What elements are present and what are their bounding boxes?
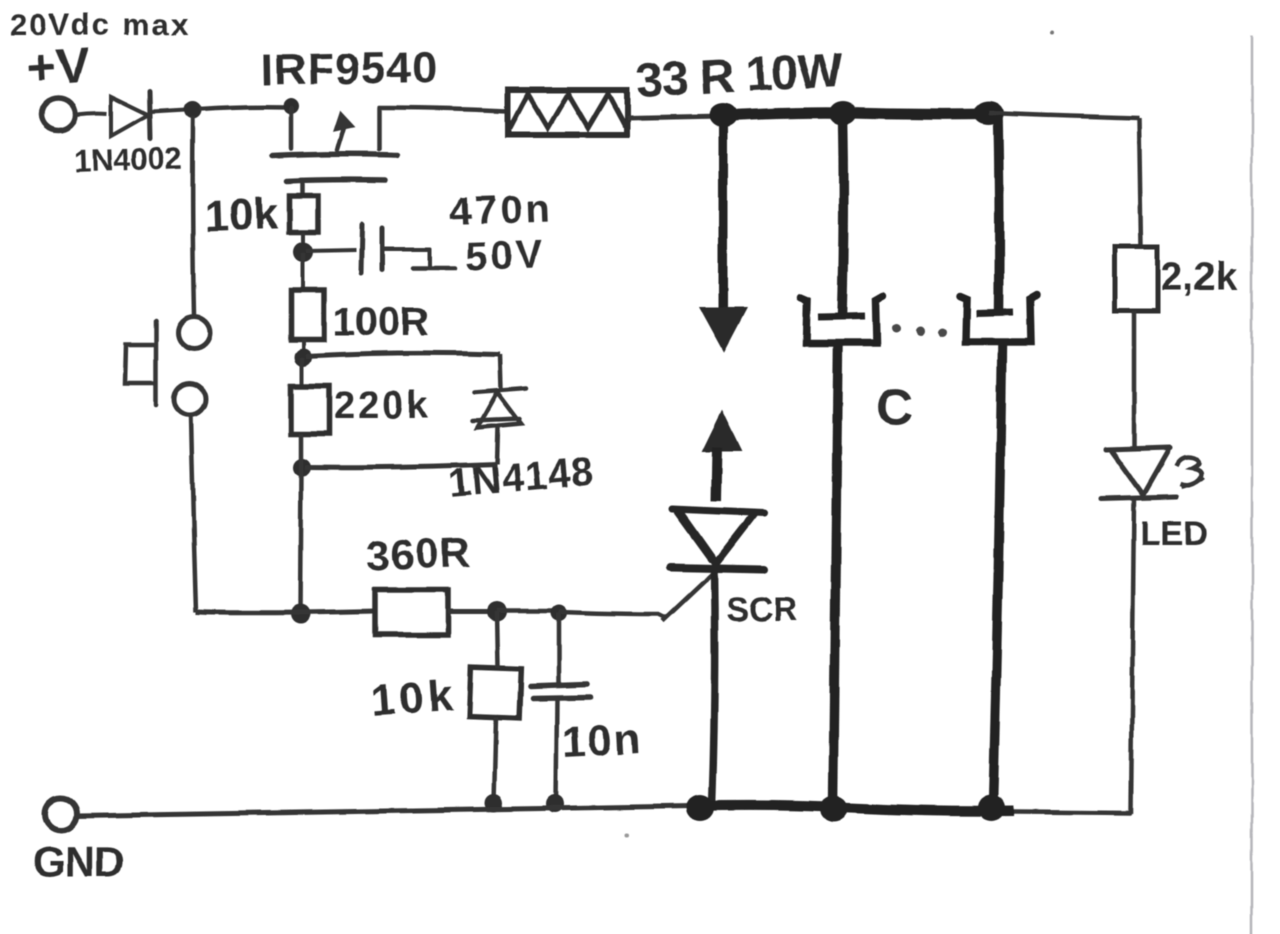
svg-text:+V: +V xyxy=(26,37,92,96)
node top bus junction 1 xyxy=(709,103,737,127)
svg-text:SCR: SCR xyxy=(726,591,798,629)
arrow down (to load plus) xyxy=(719,120,728,312)
capacitor bank cap 1 top plate xyxy=(818,316,865,317)
svg-text:10n: 10n xyxy=(561,715,644,767)
capacitor C 470n 50V xyxy=(361,224,455,273)
svg-text:33 R 10W: 33 R 10W xyxy=(635,44,845,108)
svg-text:100R: 100R xyxy=(333,300,429,344)
wire 10k bottom to ground bus xyxy=(494,717,496,803)
resistor R 360R xyxy=(375,590,448,635)
wire ground bus right thin xyxy=(1014,812,1132,813)
node junction at 10n top xyxy=(551,605,567,621)
capacitor bank cap 1 bottom lead xyxy=(833,343,838,806)
node bus junction (10n) xyxy=(546,795,564,813)
LED light squiggles xyxy=(1176,457,1201,485)
svg-text:10k: 10k xyxy=(204,189,280,241)
thyristor SCR xyxy=(671,509,764,806)
svg-text:470n: 470n xyxy=(449,186,554,234)
wire ground bus left thin xyxy=(77,806,694,816)
node junction at 10k bottom top xyxy=(487,602,507,622)
wire diode to junction xyxy=(151,110,186,112)
svg-text:1N4002: 1N4002 xyxy=(73,140,183,179)
node ground bus junction 1 xyxy=(686,795,714,821)
wire lower junction right to 1N4148 anode xyxy=(305,464,497,467)
wire 100R to junction xyxy=(301,339,305,356)
wire mid junction right to 1N4148 cathode xyxy=(306,353,500,356)
wire pushbutton bottom down xyxy=(191,415,196,612)
wire input to diode xyxy=(76,113,107,114)
svg-text:C: C xyxy=(876,379,914,437)
wire gate junction down to 100R xyxy=(301,253,305,290)
svg-text:GND: GND xyxy=(33,838,123,885)
wire corner down to diode xyxy=(500,354,501,389)
node gate-line left junction xyxy=(290,604,310,624)
wire SCR gate diagonal xyxy=(662,573,713,621)
capacitor C 10n xyxy=(530,684,590,698)
svg-text:20Vdc max: 20Vdc max xyxy=(10,7,190,42)
wire top bus thin right xyxy=(989,113,1139,118)
terminal GND circle xyxy=(45,798,77,830)
wire junction to SCR gate hook xyxy=(559,612,666,618)
wire mid junction down to 220k xyxy=(300,357,304,386)
svg-text:360R: 360R xyxy=(366,528,472,579)
capacitor bank cap 1 lead xyxy=(842,118,844,316)
node junction A (after diode) xyxy=(184,101,202,119)
node gate junction xyxy=(293,242,313,262)
svg-text:LED: LED xyxy=(1140,515,1208,553)
switch pushbutton bottom contact xyxy=(174,383,206,415)
wire right side down to 2.2k xyxy=(1139,118,1141,247)
wire 220k chain down to gate line xyxy=(300,434,301,613)
wire junction A to mosfet source xyxy=(200,107,288,109)
node mid junction xyxy=(294,348,312,366)
capacitor bank cap 2 cup xyxy=(960,295,1037,342)
resistor R 100R xyxy=(291,290,324,339)
capacitor bank cap 2 lead xyxy=(998,115,999,312)
node lower junction xyxy=(293,458,311,476)
scan page edge xyxy=(1251,36,1254,934)
resistor R 10k bottom xyxy=(469,667,521,718)
resistor R 220k xyxy=(291,386,329,434)
wire ground bus thick xyxy=(694,805,1014,811)
specks xyxy=(1050,31,1054,35)
wire top bus thick xyxy=(722,113,990,116)
node top bus junction 2 xyxy=(829,101,857,125)
capacitor bank cap 1 cup xyxy=(800,296,883,343)
svg-text:10k: 10k xyxy=(369,671,458,726)
switch pushbutton actuator xyxy=(125,321,156,405)
wire to next junction xyxy=(497,609,553,614)
diode D 1N4148 xyxy=(472,388,527,428)
svg-text:50V: 50V xyxy=(465,232,547,279)
node ground bus junction 2 xyxy=(820,796,848,822)
dots ellipsis between caps xyxy=(892,325,901,334)
wire 10k bottom to junction xyxy=(301,232,305,251)
svg-text:1N4148: 1N4148 xyxy=(447,449,596,506)
node top bus junction 3 xyxy=(974,101,1004,125)
wire 360R to junction xyxy=(448,610,489,615)
switch pushbutton top contact xyxy=(178,317,210,349)
capacitor bank cap 2 bottom lead xyxy=(993,342,1002,806)
wire 10n bottom lead xyxy=(556,698,557,804)
capacitor bank cap 2 top plate xyxy=(976,312,1013,313)
wire mosfet drain to resistor 33R xyxy=(379,108,507,111)
node junction at mosfet source xyxy=(283,98,299,114)
wire 2.2k to LED xyxy=(1132,311,1137,448)
svg-text:IRF9540: IRF9540 xyxy=(260,43,438,95)
wire 33R to top bus xyxy=(627,116,722,118)
wire junction to cap 470n xyxy=(306,250,356,251)
svg-text:220k: 220k xyxy=(334,385,431,427)
wire 10n top lead xyxy=(557,613,562,686)
terminal +V input circle xyxy=(41,98,75,130)
node bus junction (10k) xyxy=(485,794,503,812)
wire junction A down to pushbutton xyxy=(193,117,194,316)
wire gate line left segment xyxy=(196,611,374,613)
resistor R 33R 10W with zigzag xyxy=(508,90,627,135)
arrow up (from load) xyxy=(704,413,740,450)
node ground bus junction 3 xyxy=(977,795,1005,821)
diode D 1N4002 xyxy=(111,92,150,139)
resistor R 2.2k xyxy=(1115,247,1157,311)
transistor Q1 IRF9540 p-mosfet xyxy=(272,108,397,196)
LED diode xyxy=(1101,448,1176,499)
resistor R 10k top xyxy=(289,196,318,232)
svg-text:2,2k: 2,2k xyxy=(1160,255,1239,299)
wire junction to 10k bottom resistor xyxy=(497,612,498,668)
wire 1N4148 anode down xyxy=(497,427,498,464)
wire LED to ground bus xyxy=(1131,499,1134,814)
